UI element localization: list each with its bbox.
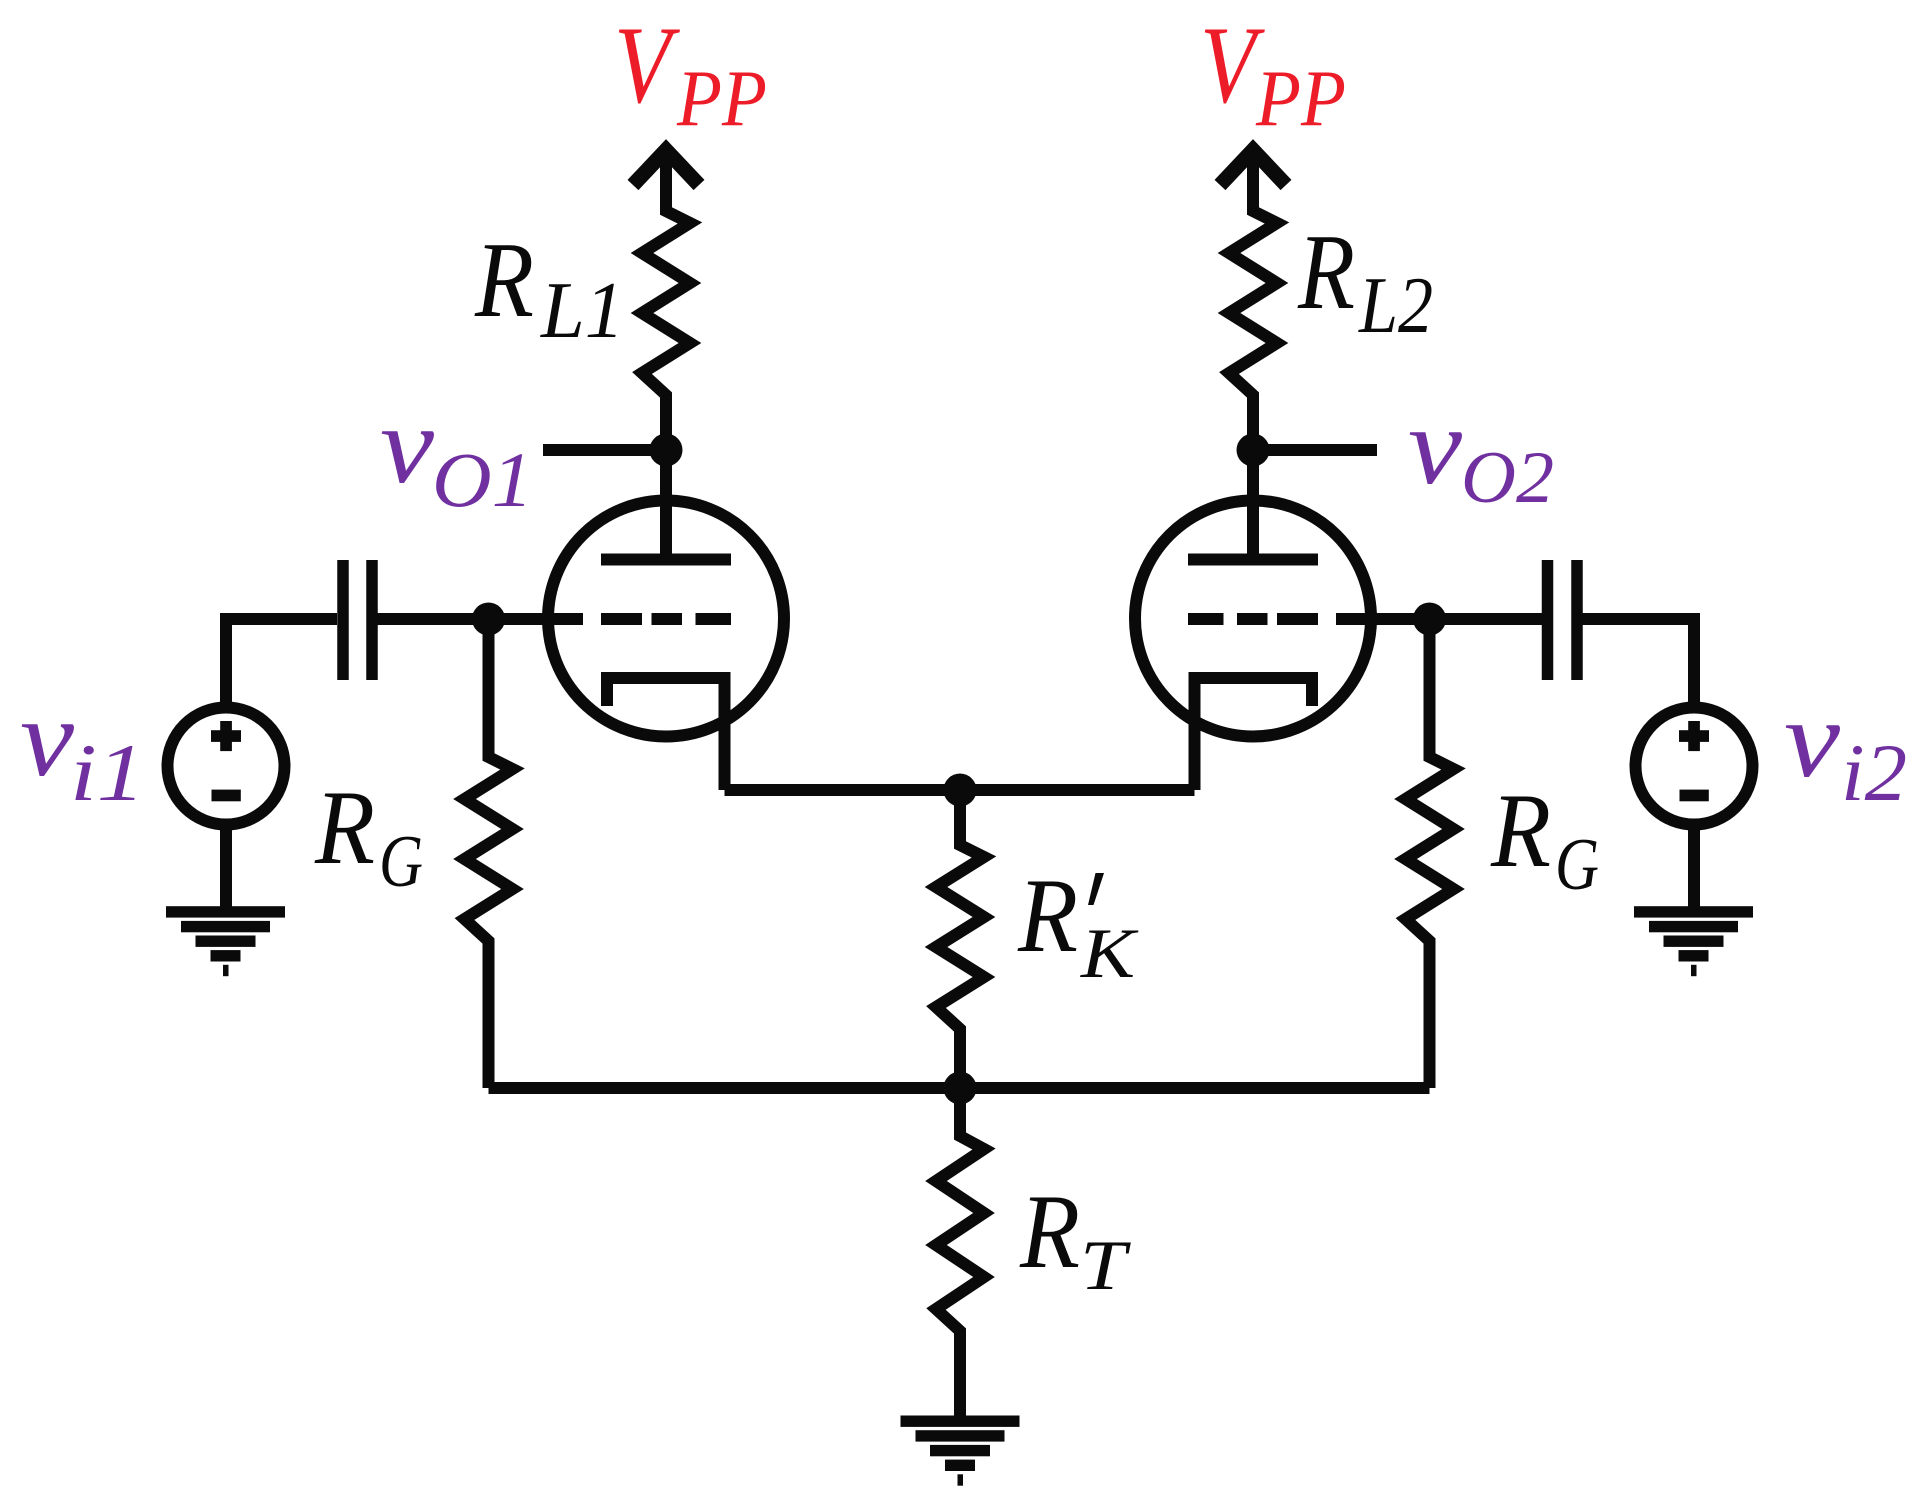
svg-text:R: R — [474, 221, 534, 340]
svg-text:R: R — [1490, 772, 1551, 889]
svg-text:i1: i1 — [70, 727, 145, 818]
svg-text:G: G — [1555, 824, 1599, 906]
svg-text:L2: L2 — [1358, 262, 1433, 350]
svg-text:L1: L1 — [540, 267, 624, 355]
svg-text:R: R — [1297, 213, 1355, 332]
svg-text:K: K — [1080, 915, 1139, 993]
svg-text:R: R — [1017, 857, 1078, 974]
svg-text:T: T — [1080, 1227, 1131, 1305]
svg-text:R: R — [1019, 1173, 1080, 1290]
svg-text:v: v — [1784, 678, 1840, 800]
svg-text:R: R — [314, 769, 375, 886]
svg-text:O1: O1 — [432, 436, 533, 523]
svg-text:PP: PP — [676, 53, 767, 143]
svg-text:v: v — [380, 384, 434, 506]
svg-text:v: v — [20, 677, 74, 799]
svg-text:v: v — [1408, 385, 1462, 507]
svg-text:V: V — [614, 4, 680, 126]
svg-text:G: G — [379, 821, 423, 903]
svg-text:O2: O2 — [1461, 437, 1554, 519]
svg-text:PP: PP — [1255, 53, 1346, 143]
svg-text:i2: i2 — [1841, 727, 1907, 818]
